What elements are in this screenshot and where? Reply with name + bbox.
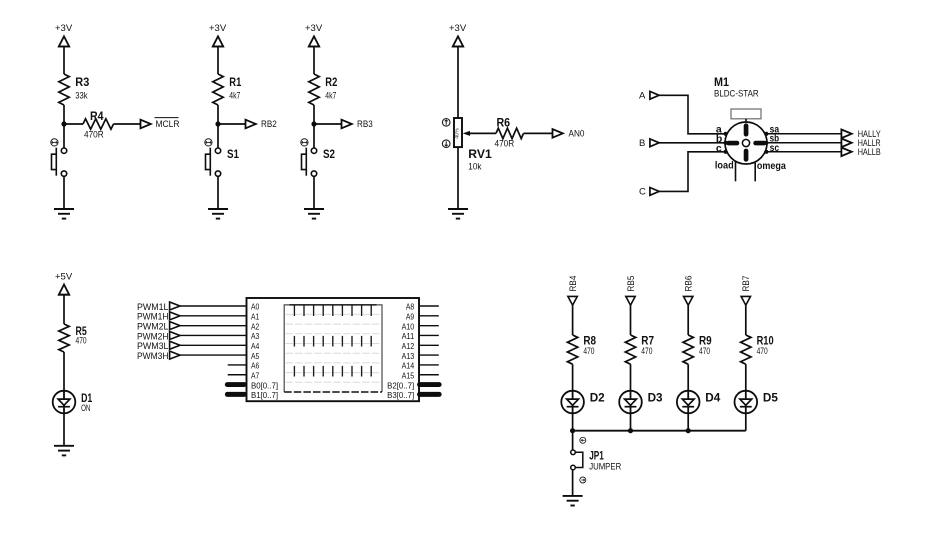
wire bbox=[524, 132, 554, 134]
push button (MCLR) bbox=[51, 139, 67, 177]
terminal PWM1L bbox=[137, 302, 180, 312]
svg-text:PWM2H: PWM2H bbox=[137, 331, 169, 341]
logic analyser screen bbox=[284, 305, 382, 392]
svg-text:A7: A7 bbox=[251, 370, 260, 380]
wire bbox=[64, 123, 83, 125]
ground bbox=[448, 209, 468, 219]
svg-text:+3V: +3V bbox=[209, 23, 227, 34]
terminal PWM2H bbox=[137, 331, 180, 341]
svg-text:A13: A13 bbox=[402, 351, 415, 361]
motor pin omega leg bbox=[754, 163, 756, 182]
svg-text:A1: A1 bbox=[251, 312, 260, 322]
wire bbox=[313, 176, 315, 209]
wire stub A13 bbox=[419, 354, 439, 356]
motor pin load leg bbox=[735, 162, 737, 182]
LED D2 bbox=[561, 390, 605, 413]
wire bbox=[63, 105, 65, 148]
svg-text:D4: D4 bbox=[705, 390, 720, 404]
svg-text:RB4: RB4 bbox=[568, 276, 578, 292]
svg-text:A9: A9 bbox=[406, 312, 415, 322]
waveform trace 1 bbox=[290, 305, 377, 316]
wire stub A10 bbox=[419, 325, 439, 327]
wire bbox=[457, 147, 459, 209]
wire bbox=[63, 47, 65, 75]
svg-text:B1[0..7]: B1[0..7] bbox=[251, 390, 278, 400]
wire bbox=[180, 325, 247, 327]
potentiometer RV1 bbox=[454, 118, 492, 172]
power +3V (R3 branch) bbox=[55, 23, 73, 47]
terminal PWM3H bbox=[137, 351, 180, 361]
wire bbox=[630, 364, 632, 391]
svg-text:B0[0..7]: B0[0..7] bbox=[251, 380, 278, 390]
svg-text:RB2: RB2 bbox=[261, 119, 277, 129]
svg-text:470R: 470R bbox=[84, 130, 104, 140]
ground bbox=[208, 209, 228, 219]
resistor R1 bbox=[213, 74, 242, 105]
wire bbox=[180, 305, 247, 307]
svg-text:JUMPER: JUMPER bbox=[589, 462, 621, 472]
node junction bbox=[628, 428, 633, 433]
LED D4 bbox=[677, 390, 721, 413]
svg-text:JP1: JP1 bbox=[589, 449, 604, 463]
waveform trace 3 bbox=[294, 366, 371, 377]
svg-text:RV1: RV1 bbox=[468, 147, 492, 161]
svg-text:A2: A2 bbox=[251, 321, 260, 331]
terminal RB4 bbox=[568, 276, 578, 306]
resistor R3 bbox=[59, 74, 90, 105]
bus stub B3 bbox=[420, 392, 440, 397]
svg-text:A14: A14 bbox=[402, 361, 415, 371]
svg-text:MCLR: MCLR bbox=[156, 119, 180, 129]
wire bbox=[687, 305, 689, 335]
wire bbox=[572, 470, 574, 496]
terminal PWM2L bbox=[137, 322, 180, 332]
motor pin connection dots bbox=[724, 132, 769, 154]
wire bbox=[313, 105, 315, 148]
terminal C bbox=[639, 187, 659, 198]
wire bbox=[314, 123, 342, 125]
svg-text:+3V: +3V bbox=[305, 23, 323, 34]
svg-text:+3V: +3V bbox=[449, 23, 467, 34]
svg-text:D5: D5 bbox=[763, 390, 778, 404]
wire bbox=[63, 352, 65, 391]
wire bbox=[217, 47, 219, 75]
svg-text:c: c bbox=[716, 142, 722, 154]
wire bbox=[114, 123, 142, 125]
jumper JP1 bbox=[571, 449, 622, 472]
resistor R7 bbox=[625, 334, 654, 365]
terminal RB5 bbox=[626, 276, 636, 306]
logic analyser block outline bbox=[247, 298, 420, 401]
terminal B bbox=[639, 138, 659, 149]
resistor R2 bbox=[309, 74, 338, 105]
resistor R6 bbox=[495, 115, 524, 148]
svg-text:ON: ON bbox=[81, 403, 90, 413]
svg-text:HALLB: HALLB bbox=[858, 147, 881, 157]
bus stub B1 bbox=[227, 392, 244, 397]
svg-text:A: A bbox=[639, 91, 646, 102]
wire bbox=[767, 133, 842, 135]
wire bbox=[572, 305, 574, 335]
power +3V (RV1 branch) bbox=[449, 23, 467, 47]
node junction bbox=[215, 121, 220, 126]
svg-text:AN0: AN0 bbox=[569, 129, 585, 139]
resistor R4 bbox=[83, 109, 114, 140]
svg-text:omega: omega bbox=[757, 160, 786, 172]
svg-text:D3: D3 bbox=[648, 390, 663, 404]
LED D3 bbox=[619, 390, 663, 413]
svg-text:470: 470 bbox=[757, 346, 768, 356]
block right pin labels A8-A15 B2 B3 bbox=[387, 302, 414, 400]
potentiometer RV1 adjust arrows bbox=[442, 119, 450, 148]
svg-text:C: C bbox=[639, 187, 646, 198]
svg-text:RB3: RB3 bbox=[357, 119, 373, 129]
ground bbox=[563, 496, 583, 506]
motor M1 pin labels bbox=[715, 123, 786, 172]
terminal HALLY bbox=[841, 129, 880, 139]
wire bbox=[217, 105, 219, 148]
wire stub A8 bbox=[419, 305, 439, 307]
node junction bbox=[570, 428, 575, 433]
wire bbox=[630, 413, 632, 430]
power +3V (R2 branch) bbox=[305, 23, 323, 47]
terminal RB2 bbox=[246, 119, 277, 129]
svg-text:PWM3H: PWM3H bbox=[137, 351, 169, 361]
svg-text:+5V: +5V bbox=[55, 271, 73, 282]
svg-text:R4: R4 bbox=[90, 109, 104, 123]
svg-text:PWM1L: PWM1L bbox=[137, 302, 169, 312]
power +3V (R1 branch) bbox=[209, 23, 227, 47]
wire bbox=[180, 344, 247, 346]
terminal HALLR bbox=[841, 138, 881, 148]
svg-text:R2: R2 bbox=[325, 75, 337, 89]
svg-text:M1: M1 bbox=[714, 75, 729, 89]
wire bbox=[572, 364, 574, 391]
svg-text:R3: R3 bbox=[75, 75, 89, 89]
wire bbox=[687, 413, 689, 430]
terminal MCLR bbox=[141, 118, 180, 129]
wire bbox=[469, 132, 496, 134]
label M1 / BLDC-STAR bbox=[714, 75, 759, 98]
svg-text:A4: A4 bbox=[251, 341, 260, 351]
svg-text:A0: A0 bbox=[251, 302, 260, 312]
wire stub A12 bbox=[419, 344, 439, 346]
resistor R8 bbox=[567, 334, 596, 365]
ground bbox=[54, 446, 74, 456]
svg-text:470R: 470R bbox=[495, 139, 515, 149]
wire bbox=[63, 413, 65, 446]
svg-text:D2: D2 bbox=[590, 390, 605, 404]
svg-text:A12: A12 bbox=[402, 341, 415, 351]
svg-text:470: 470 bbox=[641, 346, 652, 356]
svg-text:10k: 10k bbox=[468, 162, 482, 172]
svg-text:470: 470 bbox=[76, 335, 87, 345]
svg-text:PWM3L: PWM3L bbox=[137, 341, 169, 351]
jumper JP1 actuation markers bbox=[580, 437, 586, 483]
wire bbox=[767, 142, 842, 144]
svg-text:A10: A10 bbox=[402, 321, 415, 331]
svg-text:A15: A15 bbox=[402, 370, 415, 380]
resistor R10 bbox=[741, 334, 774, 365]
wire bbox=[745, 305, 747, 335]
node junction bbox=[686, 428, 691, 433]
node junction bbox=[311, 121, 316, 126]
LED D1 bbox=[53, 391, 93, 414]
svg-text:B2[0..7]: B2[0..7] bbox=[387, 380, 414, 390]
LED D5 bbox=[735, 390, 779, 413]
terminal RB3 bbox=[342, 119, 373, 129]
svg-text:BLDC-STAR: BLDC-STAR bbox=[714, 88, 759, 98]
svg-text:PWM2L: PWM2L bbox=[137, 322, 169, 332]
wire stub A15 bbox=[419, 374, 439, 376]
svg-text:R1: R1 bbox=[229, 75, 241, 89]
wire bbox=[659, 95, 725, 134]
motor M1 body bbox=[725, 109, 767, 164]
svg-text:PWM1H: PWM1H bbox=[137, 312, 169, 322]
wire bbox=[217, 176, 219, 209]
svg-text:470: 470 bbox=[583, 346, 594, 356]
terminal HALLB bbox=[841, 147, 880, 157]
terminal A bbox=[639, 91, 659, 102]
wire bbox=[572, 431, 574, 450]
svg-text:A5: A5 bbox=[251, 351, 260, 361]
wire bbox=[630, 305, 632, 335]
bus stub B2 bbox=[420, 382, 440, 387]
wire bbox=[745, 364, 747, 391]
svg-text:40%: 40% bbox=[455, 128, 461, 139]
svg-text:RB7: RB7 bbox=[741, 276, 751, 292]
wire stub A6 bbox=[228, 364, 247, 366]
power +5V (D1 branch) bbox=[55, 271, 73, 294]
svg-text:+3V: +3V bbox=[55, 23, 73, 34]
wire bbox=[457, 47, 459, 119]
bus stub B0 bbox=[227, 382, 244, 387]
wire bbox=[63, 176, 65, 209]
waveform trace 2 bbox=[294, 336, 371, 347]
svg-text:470: 470 bbox=[699, 346, 710, 356]
wire (cathode rail) bbox=[573, 430, 746, 432]
wire stub A11 bbox=[419, 334, 439, 336]
ground bbox=[54, 209, 74, 219]
svg-text:B3[0..7]: B3[0..7] bbox=[387, 390, 414, 400]
svg-text:S1: S1 bbox=[227, 147, 239, 161]
svg-text:4k7: 4k7 bbox=[325, 91, 336, 101]
wire bbox=[659, 142, 725, 144]
wire stub A14 bbox=[419, 364, 439, 366]
wire bbox=[63, 295, 65, 324]
svg-text:RB5: RB5 bbox=[626, 276, 636, 292]
svg-text:R6: R6 bbox=[497, 115, 511, 129]
svg-text:RB6: RB6 bbox=[684, 276, 694, 292]
wire stub A9 bbox=[419, 315, 439, 317]
screen bottom dashed line bbox=[284, 391, 382, 393]
wire bbox=[180, 334, 247, 336]
resistor R5 bbox=[59, 324, 87, 352]
svg-text:33k: 33k bbox=[75, 91, 88, 101]
push button S1 bbox=[205, 139, 239, 177]
wire stub A7 bbox=[228, 374, 247, 376]
block left pin labels A0-A7 B0 B1 bbox=[251, 302, 278, 400]
wire bbox=[767, 151, 842, 153]
wire bbox=[218, 123, 246, 125]
wire bbox=[572, 413, 574, 430]
svg-text:S2: S2 bbox=[323, 147, 335, 161]
wire bbox=[180, 315, 247, 317]
svg-text:4k7: 4k7 bbox=[229, 91, 240, 101]
terminal AN0 bbox=[553, 129, 585, 139]
terminal PWM1H bbox=[137, 312, 180, 322]
resistor R9 bbox=[683, 334, 712, 365]
svg-text:load: load bbox=[715, 159, 734, 171]
terminal RB7 bbox=[741, 276, 751, 306]
terminal RB6 bbox=[684, 276, 694, 306]
svg-text:A11: A11 bbox=[402, 331, 415, 341]
wire bbox=[659, 152, 725, 192]
svg-text:A6: A6 bbox=[251, 361, 260, 371]
wire bbox=[180, 354, 247, 356]
svg-text:B: B bbox=[639, 138, 645, 149]
wire bbox=[687, 364, 689, 391]
ground bbox=[304, 209, 324, 219]
svg-text:A8: A8 bbox=[406, 302, 415, 312]
wire bbox=[745, 413, 747, 430]
push button S2 bbox=[301, 139, 335, 177]
wire bbox=[313, 47, 315, 75]
node junction bbox=[61, 121, 66, 126]
svg-text:A3: A3 bbox=[251, 331, 260, 341]
terminal PWM3L bbox=[137, 341, 180, 351]
